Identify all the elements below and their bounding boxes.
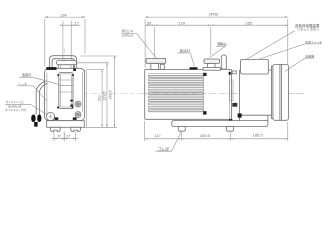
- svg-text:248.5: 248.5: [108, 91, 112, 100]
- svg-text:Rp(PS)1/8: Rp(PS)1/8: [8, 104, 22, 108]
- svg-text:排気口 (2): 排気口 (2): [122, 29, 134, 33]
- svg-text:117: 117: [154, 133, 161, 138]
- svg-text:37: 37: [66, 134, 70, 138]
- svg-text:185.5: 185.5: [253, 133, 264, 138]
- svg-text:179: 179: [178, 21, 185, 26]
- svg-text:オイルキャップ付: オイルキャップ付: [5, 108, 26, 112]
- svg-text:252: 252: [246, 21, 253, 26]
- svg-text:163.5: 163.5: [200, 133, 211, 138]
- svg-text:229.5: 229.5: [103, 92, 107, 101]
- svg-text:G(PF)1/2: G(PF)1/2: [122, 34, 134, 38]
- svg-text:(455): (455): [209, 12, 219, 17]
- svg-text:リセットボタン: リセットボタン: [297, 26, 319, 31]
- svg-text:35: 35: [147, 20, 152, 25]
- svg-text:17: 17: [75, 21, 80, 26]
- svg-text:ゴム足: ゴム足: [158, 147, 170, 152]
- svg-text:37: 37: [57, 134, 61, 138]
- svg-text:給油口: 給油口: [180, 48, 190, 53]
- svg-text:134: 134: [60, 12, 67, 17]
- svg-text:油量計: 油量計: [22, 72, 33, 77]
- svg-text:212: 212: [97, 95, 101, 101]
